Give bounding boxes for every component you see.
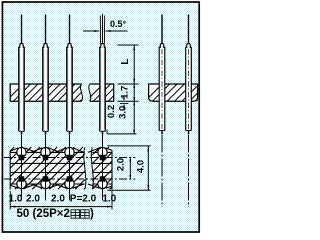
svg-text:0.2: 0.2 [106, 105, 117, 118]
plan view housing body [10, 147, 112, 189]
svg-text:2.0: 2.0 [26, 193, 40, 204]
svg-text:2.0: 2.0 [51, 193, 65, 204]
front view pin 1 [19, 15, 25, 135]
svg-text:2.0: 2.0 [116, 158, 127, 171]
front view housing left part [10, 84, 82, 101]
side view pin row A [159, 15, 165, 208]
paper background [0, 0, 204, 237]
svg-text:4.0: 4.0 [136, 160, 147, 173]
plan view pin squares [19, 155, 106, 182]
svg-text:): ) [90, 208, 94, 220]
pitch labels 1.0 2.0 2.0 P=2.0 1.0 [9, 193, 117, 204]
label 50 (25P x2 renketsu) [17, 208, 95, 220]
plan view row centerlines [4, 158, 136, 180]
dimension 3.0 pin below [107, 101, 137, 134]
svg-text:1.0: 1.0 [9, 193, 23, 204]
svg-text:50 (25P×2: 50 (25P×2 [17, 208, 70, 220]
front view housing right part [89, 84, 114, 101]
svg-text:1.0: 1.0 [102, 193, 116, 204]
plan view bosses (circles) [17, 148, 107, 189]
side view housing [149, 84, 198, 101]
dimension 1.7 housing height [118, 84, 139, 101]
kanji renketsu glyphs [71, 210, 89, 218]
dimension 50 overall [10, 206, 112, 208]
border frame [2, 2, 199, 232]
dimension 4.0 housing width [107, 146, 150, 190]
front view pin 4 (tapered 0.5deg) [100, 14, 106, 135]
svg-text:L: L [120, 58, 131, 64]
dimension 2.0 row pitch [116, 158, 132, 180]
svg-text:3.0: 3.0 [117, 106, 128, 119]
dimension L [118, 45, 139, 84]
front view pin 2 [43, 15, 49, 135]
front view pin 3 [67, 15, 73, 135]
svg-text:P=2.0: P=2.0 [70, 193, 97, 204]
dimension 0.2 standoff [106, 97, 128, 119]
bottom pitch ticks [10, 191, 112, 210]
side view pin row B [186, 15, 192, 208]
svg-text:1.7: 1.7 [120, 86, 131, 99]
dimension 0.5 deg taper [83, 19, 128, 32]
plan view column centerlines [22, 135, 103, 198]
svg-text:0.5°: 0.5° [110, 19, 127, 29]
